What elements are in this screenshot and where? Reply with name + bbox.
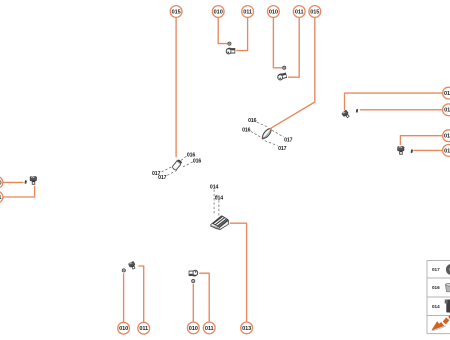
svg-text:011: 011 — [139, 326, 148, 332]
svg-text:011: 011 — [444, 148, 450, 154]
svg-text:010: 010 — [444, 91, 450, 97]
svg-text:010: 010 — [0, 180, 2, 186]
svg-text:014: 014 — [210, 185, 219, 191]
svg-text:017: 017 — [284, 137, 293, 143]
svg-text:010: 010 — [189, 326, 198, 332]
svg-text:010: 010 — [214, 9, 223, 15]
svg-text:017: 017 — [278, 146, 287, 152]
svg-text:010: 010 — [444, 134, 450, 140]
svg-text:017: 017 — [432, 267, 440, 272]
svg-text:011: 011 — [295, 9, 304, 15]
svg-text:015: 015 — [310, 9, 319, 15]
svg-text:016: 016 — [193, 158, 202, 164]
svg-text:011: 011 — [243, 9, 252, 15]
svg-text:013: 013 — [242, 326, 251, 332]
svg-text:014: 014 — [215, 196, 224, 202]
svg-text:016: 016 — [242, 127, 251, 133]
svg-text:015: 015 — [172, 9, 181, 15]
svg-text:010: 010 — [269, 9, 278, 15]
svg-text:010: 010 — [119, 326, 128, 332]
svg-text:016: 016 — [432, 285, 440, 290]
svg-text:014: 014 — [432, 304, 440, 309]
svg-text:011: 011 — [0, 195, 1, 201]
svg-text:016: 016 — [248, 118, 257, 124]
svg-text:011: 011 — [205, 326, 214, 332]
svg-text:017: 017 — [158, 175, 167, 181]
svg-text:011: 011 — [444, 108, 450, 114]
